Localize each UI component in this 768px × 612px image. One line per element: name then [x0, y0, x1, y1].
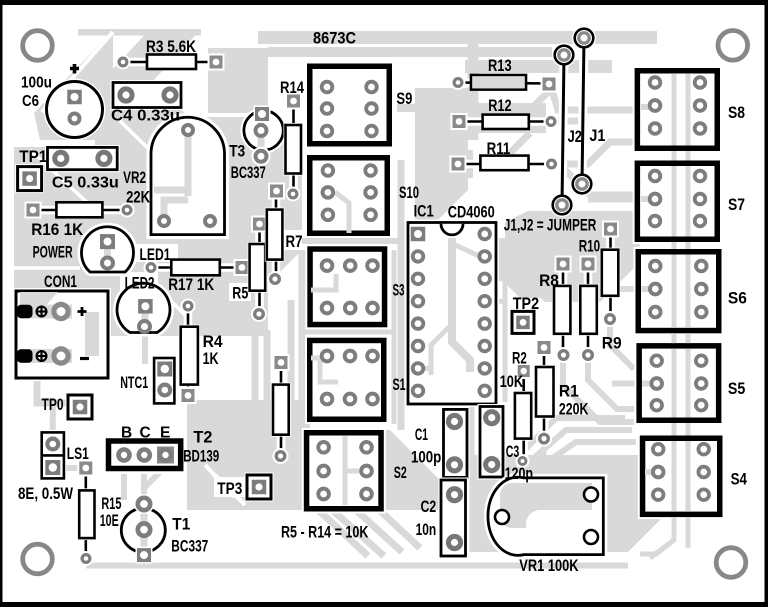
svg-text:S10: S10: [399, 184, 419, 202]
svg-text:8E, 0.5W: 8E, 0.5W: [18, 485, 73, 503]
svg-text:VR2: VR2: [123, 169, 146, 187]
svg-text:220K: 220K: [559, 401, 589, 419]
svg-text:C6: C6: [22, 93, 39, 110]
svg-text:R4: R4: [203, 333, 224, 351]
svg-text:LED2: LED2: [125, 274, 155, 292]
svg-text:R14: R14: [280, 79, 305, 97]
svg-text:TP1: TP1: [19, 148, 47, 166]
svg-text:S8: S8: [728, 104, 745, 122]
svg-text:BC337: BC337: [231, 164, 266, 182]
svg-text:120p: 120p: [505, 465, 533, 483]
svg-text:CD4060: CD4060: [448, 204, 495, 222]
svg-text:22K: 22K: [126, 188, 150, 206]
svg-text:R15: R15: [101, 495, 121, 513]
svg-text:J1,J2 = JUMPER: J1,J2 = JUMPER: [504, 217, 597, 235]
svg-text:S1: S1: [393, 376, 406, 394]
svg-text:VR1 100K: VR1 100K: [519, 557, 578, 575]
svg-text:R10: R10: [579, 237, 600, 255]
svg-text:S9: S9: [396, 90, 412, 108]
svg-text:TP2: TP2: [513, 295, 539, 313]
svg-text:8673C: 8673C: [313, 29, 356, 48]
svg-text:T1: T1: [172, 516, 190, 534]
svg-text:R1: R1: [559, 382, 579, 400]
svg-text:C1: C1: [415, 426, 428, 444]
svg-text:R12: R12: [488, 97, 511, 115]
svg-text:R3 5.6K: R3 5.6K: [146, 37, 197, 56]
svg-text:10n: 10n: [416, 521, 437, 539]
svg-text:10K: 10K: [500, 373, 524, 391]
svg-text:R5 - R14 = 10K: R5 - R14 = 10K: [281, 524, 368, 542]
svg-text:C3: C3: [506, 443, 520, 461]
svg-text:C2: C2: [421, 498, 437, 516]
svg-text:CON1: CON1: [44, 273, 77, 291]
svg-text:J1: J1: [589, 127, 605, 145]
svg-text:B: B: [121, 425, 132, 442]
svg-text:T2: T2: [193, 429, 212, 447]
svg-text:R16 1K: R16 1K: [31, 221, 83, 239]
svg-text:R7: R7: [286, 233, 303, 251]
svg-text:C: C: [140, 425, 151, 442]
svg-text:BD139: BD139: [183, 447, 219, 465]
svg-text:S3: S3: [393, 282, 405, 300]
svg-text:S5: S5: [728, 380, 745, 398]
svg-text:R2: R2: [512, 349, 527, 367]
svg-text:R5: R5: [232, 285, 248, 303]
svg-text:1K: 1K: [203, 350, 219, 368]
svg-text:LED1: LED1: [140, 246, 171, 264]
svg-text:S2: S2: [394, 464, 407, 482]
svg-text:R17 1K: R17 1K: [168, 276, 214, 294]
svg-text:J2: J2: [568, 128, 582, 146]
svg-text:R13: R13: [488, 57, 512, 75]
svg-text:100p: 100p: [411, 448, 441, 466]
svg-text:S6: S6: [728, 289, 747, 307]
svg-text:S7: S7: [728, 196, 745, 214]
svg-text:C5 0.33u: C5 0.33u: [52, 175, 119, 192]
svg-text:NTC1: NTC1: [120, 374, 148, 392]
svg-text:POWER: POWER: [33, 243, 73, 261]
svg-text:R8: R8: [539, 272, 559, 290]
svg-text:R11: R11: [487, 140, 511, 158]
svg-text:TP3: TP3: [217, 480, 242, 498]
svg-text:IC1: IC1: [414, 203, 434, 221]
svg-text:100u: 100u: [21, 75, 52, 92]
svg-text:E: E: [160, 425, 170, 442]
svg-text:S4: S4: [731, 470, 748, 488]
svg-text:LS1: LS1: [67, 445, 89, 463]
svg-text:TP0: TP0: [42, 396, 64, 414]
svg-text:BC337: BC337: [171, 538, 208, 556]
svg-text:R9: R9: [602, 335, 622, 353]
svg-text:C4 0.33u: C4 0.33u: [111, 108, 180, 125]
svg-text:10E: 10E: [100, 512, 119, 530]
svg-text:T3: T3: [229, 142, 245, 160]
